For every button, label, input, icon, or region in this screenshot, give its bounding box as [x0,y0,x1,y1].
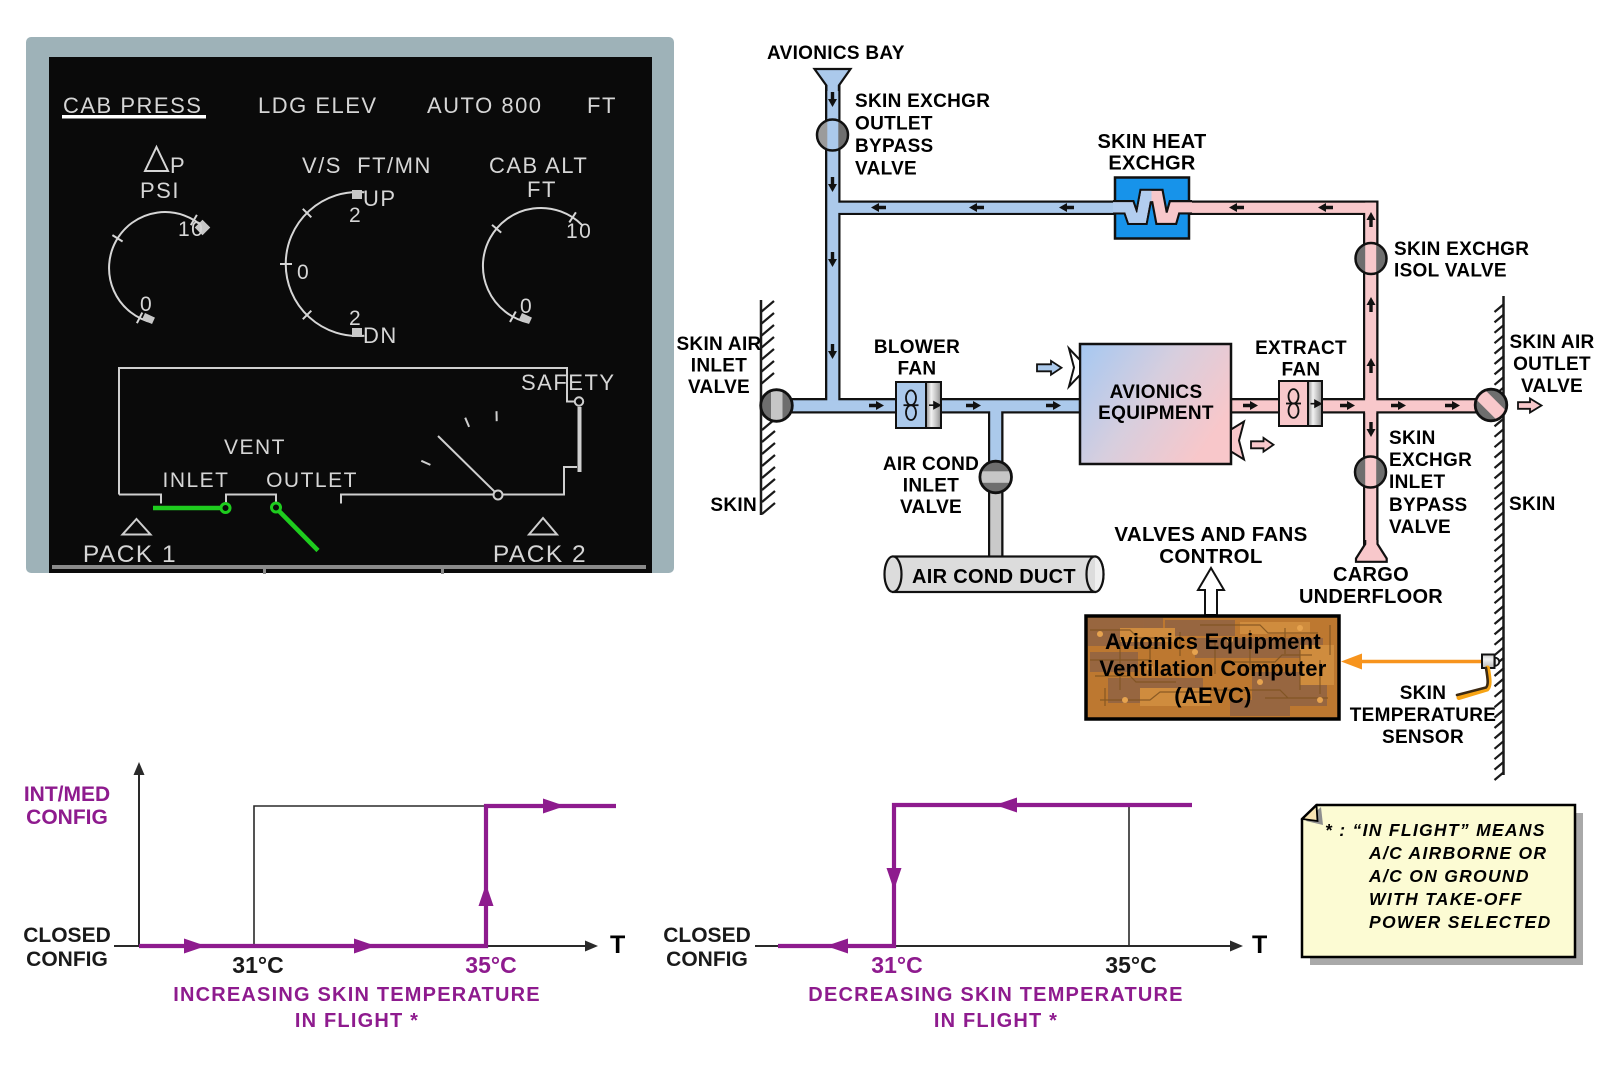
ECAM bezel frame [26,37,674,573]
svg-text:VALVE: VALVE [1389,517,1451,538]
svg-text:EXTRACT: EXTRACT [1255,338,1347,359]
svg-text:10: 10 [566,220,592,243]
svg-text:10: 10 [178,218,204,241]
svg-text:VENT: VENT [224,436,286,459]
outflow valve scale dashes [421,411,496,465]
delta-P needle diamond at 10 [195,220,211,236]
valve: skin air inlet [761,390,793,422]
svg-text:CONFIG: CONFIG [26,948,108,971]
valve: skin exchgr inlet bypass [1355,457,1386,488]
air cond duct [885,556,1104,592]
svg-text:CAB PRESS: CAB PRESS [63,93,202,118]
svg-text:2: 2 [349,204,362,227]
white block arrow up to valves/fans control [1198,568,1224,615]
CAB ALT gauge arc [483,208,582,323]
vent outlet valve green line [280,512,319,551]
svg-text:VALVE: VALVE [900,497,962,518]
svg-text:VALVES AND FANS: VALVES AND FANS [1114,523,1307,546]
g2 x-axis [755,945,1233,947]
blue block arrow into avionics equipment [1037,361,1062,375]
svg-text:P: P [170,153,186,178]
svg-text:VALVE: VALVE [855,159,917,180]
svg-text:SAFETY: SAFETY [521,370,616,395]
avionics bay pipe fill [827,82,838,411]
svg-text:V/S FT/MN: V/S FT/MN [302,153,432,178]
avionics bay pipe casing [825,78,841,413]
svg-text:VALVE: VALVE [688,377,750,398]
pipe outlines (black casings) [777,78,1491,562]
svg-text:FAN: FAN [898,359,937,380]
svg-text:Avionics Equipment: Avionics Equipment [1105,629,1321,654]
V/S UP marker [352,190,362,199]
svg-text:SKIN: SKIN [710,495,757,516]
svg-text:IN FLIGHT *: IN FLIGHT * [934,1010,1058,1032]
note shadow [1310,813,1583,965]
pink block arrow after outlet valve [1518,399,1542,413]
svg-text:A/C ON GROUND: A/C ON GROUND [1368,866,1530,886]
hx blue pipe casing [827,201,1117,216]
right riser fill [1365,203,1376,546]
sensor wire [1459,668,1489,698]
svg-text:CARGO: CARGO [1333,564,1409,586]
cabin outline [119,368,577,504]
air cond branch fill [990,411,1001,475]
title underline [62,115,206,119]
svg-text:31°C: 31°C [232,952,283,978]
delta-P gauge title [145,147,168,171]
svg-text:EQUIPMENT: EQUIPMENT [1098,403,1214,424]
g2 trace arrowheads [826,798,1017,954]
svg-text:DN: DN [363,323,398,348]
svg-text:CONTROL: CONTROL [1159,545,1262,568]
svg-text:EXCHGR: EXCHGR [1389,450,1472,471]
blower fan [896,382,941,428]
svg-text:PACK 2: PACK 2 [493,541,587,568]
g1 trace arrowheads [184,799,565,954]
svg-text:AIR COND DUCT: AIR COND DUCT [912,566,1076,588]
PACK 2 triangle [529,518,557,535]
g1 y-axis [138,772,140,946]
svg-text:UNDERFLOOR: UNDERFLOOR [1299,586,1443,608]
svg-text:31°C: 31°C [871,952,922,978]
V/S gauge arc [280,192,364,336]
safety valve hinge [575,397,583,405]
svg-text:Ventilation Computer: Ventilation Computer [1099,656,1326,681]
g2 35C line (black) [1128,805,1130,946]
valve: skin air outlet (open diagonal) [1474,388,1508,422]
svg-text:ISOL VALVE: ISOL VALVE [1394,261,1507,282]
svg-text:UP: UP [363,186,397,211]
heat exchanger zigzag pink half [1113,196,1192,218]
svg-text:INLET: INLET [1389,472,1445,493]
svg-text:0: 0 [297,261,310,284]
main pink pipe casing [1229,398,1491,414]
svg-text:OUTLET: OUTLET [855,114,933,135]
svg-text:IN FLIGHT *: IN FLIGHT * [295,1010,419,1032]
svg-text:CAB ALT: CAB ALT [489,153,588,178]
svg-text:CONFIG: CONFIG [26,806,108,829]
g2 purple trace [778,805,1192,946]
svg-text:SKIN: SKIN [1400,683,1447,704]
orange wire from sensor to AEVC [1355,660,1481,664]
main blue pipe fill [779,400,1080,411]
g1 purple trace [139,806,616,946]
svg-text:SKIN: SKIN [1509,494,1556,515]
right skin wall hatches [1495,304,1505,780]
flow arrows: main pink pipe (right) [1243,401,1460,410]
svg-text:CONFIG: CONFIG [666,948,748,971]
left skin wall line [760,300,763,515]
vent inlet hinge ring [221,504,230,513]
svg-text:AUTO 800: AUTO 800 [427,93,543,118]
avionics equipment outlet horn [1231,422,1244,460]
left skin wall hatches [761,301,775,514]
delta-P gauge arc [109,212,205,323]
right skin wall line [1502,296,1505,775]
svg-text:CLOSED: CLOSED [663,924,751,947]
air cond gray pipe fill [990,492,1001,560]
svg-text:T: T [610,931,626,959]
svg-text:SKIN: SKIN [1389,428,1436,449]
main blue pipe casing [777,398,1082,414]
svg-text:LDG ELEV: LDG ELEV [258,93,378,118]
svg-text:POWER SELECTED: POWER SELECTED [1369,912,1552,932]
main pink pipe fill [1231,400,1489,411]
svg-text:FT: FT [527,177,557,202]
orange arrowhead at AEVC [1341,654,1362,670]
safety valve flap [578,407,582,472]
hx pink pipe casing [1186,201,1378,216]
svg-text:35°C: 35°C [1105,952,1156,978]
svg-text:INLET: INLET [903,476,959,497]
AEVC box circuit texture [1086,616,1339,719]
bottom separator line [52,565,646,569]
cargo underfloor funnel [1356,540,1387,562]
valve: air cond inlet (closed) [980,461,1012,493]
avionics equipment inlet horn [1069,349,1080,387]
valve: skin exchgr isol [1356,243,1387,274]
note text [1325,820,1552,932]
svg-text:INLET: INLET [691,356,747,377]
svg-text:VALVE: VALVE [1521,376,1583,397]
svg-text:OUTLET: OUTLET [1513,354,1591,375]
svg-text:TEMPERATURE: TEMPERATURE [1350,705,1497,726]
svg-text:OUTLET: OUTLET [266,469,358,492]
svg-text:0: 0 [520,295,533,318]
outflow valve hinge [494,491,503,500]
svg-text:(AEVC): (AEVC) [1174,683,1252,708]
note dog ear fold [1303,806,1318,822]
svg-text:A/C AIRBORNE OR: A/C AIRBORNE OR [1368,843,1547,863]
separator tick 2 [441,565,444,574]
svg-text:PACK 1: PACK 1 [83,541,177,568]
svg-text:AVIONICS: AVIONICS [1110,382,1203,403]
svg-text:CLOSED: CLOSED [23,924,111,947]
svg-text:INT/MED: INT/MED [24,783,110,806]
pipe fills [779,82,1489,560]
note dog ear shadow [1306,807,1323,825]
delta-P zero marker [142,313,155,324]
heat exchanger zigzag blue half [1113,196,1192,218]
svg-text:AVIONICS BAY: AVIONICS BAY [767,43,905,64]
hx blue pipe fill [829,203,1115,213]
air cond branch casing [988,411,1004,478]
svg-text:BLOWER: BLOWER [874,337,960,358]
V/S DN marker [352,328,362,337]
flow arrows: main blue pipe (right) [869,401,1061,410]
g1 x-axis [114,945,588,947]
hx pink pipe fill [1188,203,1376,213]
svg-text:SKIN HEAT: SKIN HEAT [1098,131,1207,153]
svg-text:SKIN AIR: SKIN AIR [1509,332,1594,353]
pink block arrow out of avionics equipment [1251,438,1274,452]
svg-text:AIR COND: AIR COND [883,454,979,475]
svg-text:WITH TAKE-OFF: WITH TAKE-OFF [1369,889,1523,909]
valve: skin exchgr outlet bypass [817,120,848,151]
svg-text:SENSOR: SENSOR [1382,727,1464,748]
svg-text:T: T [1252,931,1268,959]
svg-text:BYPASS: BYPASS [1389,495,1468,516]
svg-text:FT: FT [587,93,617,118]
svg-text:0: 0 [140,293,153,316]
svg-text:2: 2 [349,307,362,330]
flow arrows: right riser (up) [1367,212,1376,437]
flow arrows: hx pipes (left) [871,203,1333,212]
svg-text:INLET: INLET [162,469,229,492]
vent inlet valve green line [153,506,220,511]
svg-text:DECREASING SKIN TEMPERATURE: DECREASING SKIN TEMPERATURE [808,984,1183,1006]
svg-text:BYPASS: BYPASS [855,136,934,157]
outflow valve needle [438,436,495,492]
note body [1302,805,1575,957]
CAB ALT zero marker [519,313,532,324]
riser/main-pipe cross junction patch [1365,399,1376,414]
svg-text:INCREASING SKIN TEMPERATURE: INCREASING SKIN TEMPERATURE [173,984,541,1006]
separator tick 1 [263,565,266,574]
avionics bay funnel [815,69,851,91]
ECAM black screen [49,57,652,573]
svg-text:SKIN EXCHGR: SKIN EXCHGR [1394,239,1529,260]
heat exchanger zigzag casing [1113,196,1192,218]
svg-text:FAN: FAN [1282,360,1321,381]
right riser pipe casing [1363,201,1379,549]
svg-text:PSI: PSI [140,178,180,203]
svg-text:* : “IN FLIGHT” MEANS: * : “IN FLIGHT” MEANS [1325,820,1546,840]
svg-text:SKIN EXCHGR: SKIN EXCHGR [855,91,990,112]
g1 step outline (black) [254,806,486,946]
extract fan [1279,381,1322,426]
PACK 1 triangle [123,519,151,535]
svg-text:SKIN AIR: SKIN AIR [676,334,761,355]
skin heat exchanger box [1115,178,1189,239]
svg-text:35°C: 35°C [465,952,516,978]
vent outlet hinge ring [272,503,281,512]
flow arrows: avionics bay pipe (down) [828,92,837,359]
air cond gray pipe casing [988,490,1004,562]
svg-text:EXCHGR: EXCHGR [1108,153,1196,175]
